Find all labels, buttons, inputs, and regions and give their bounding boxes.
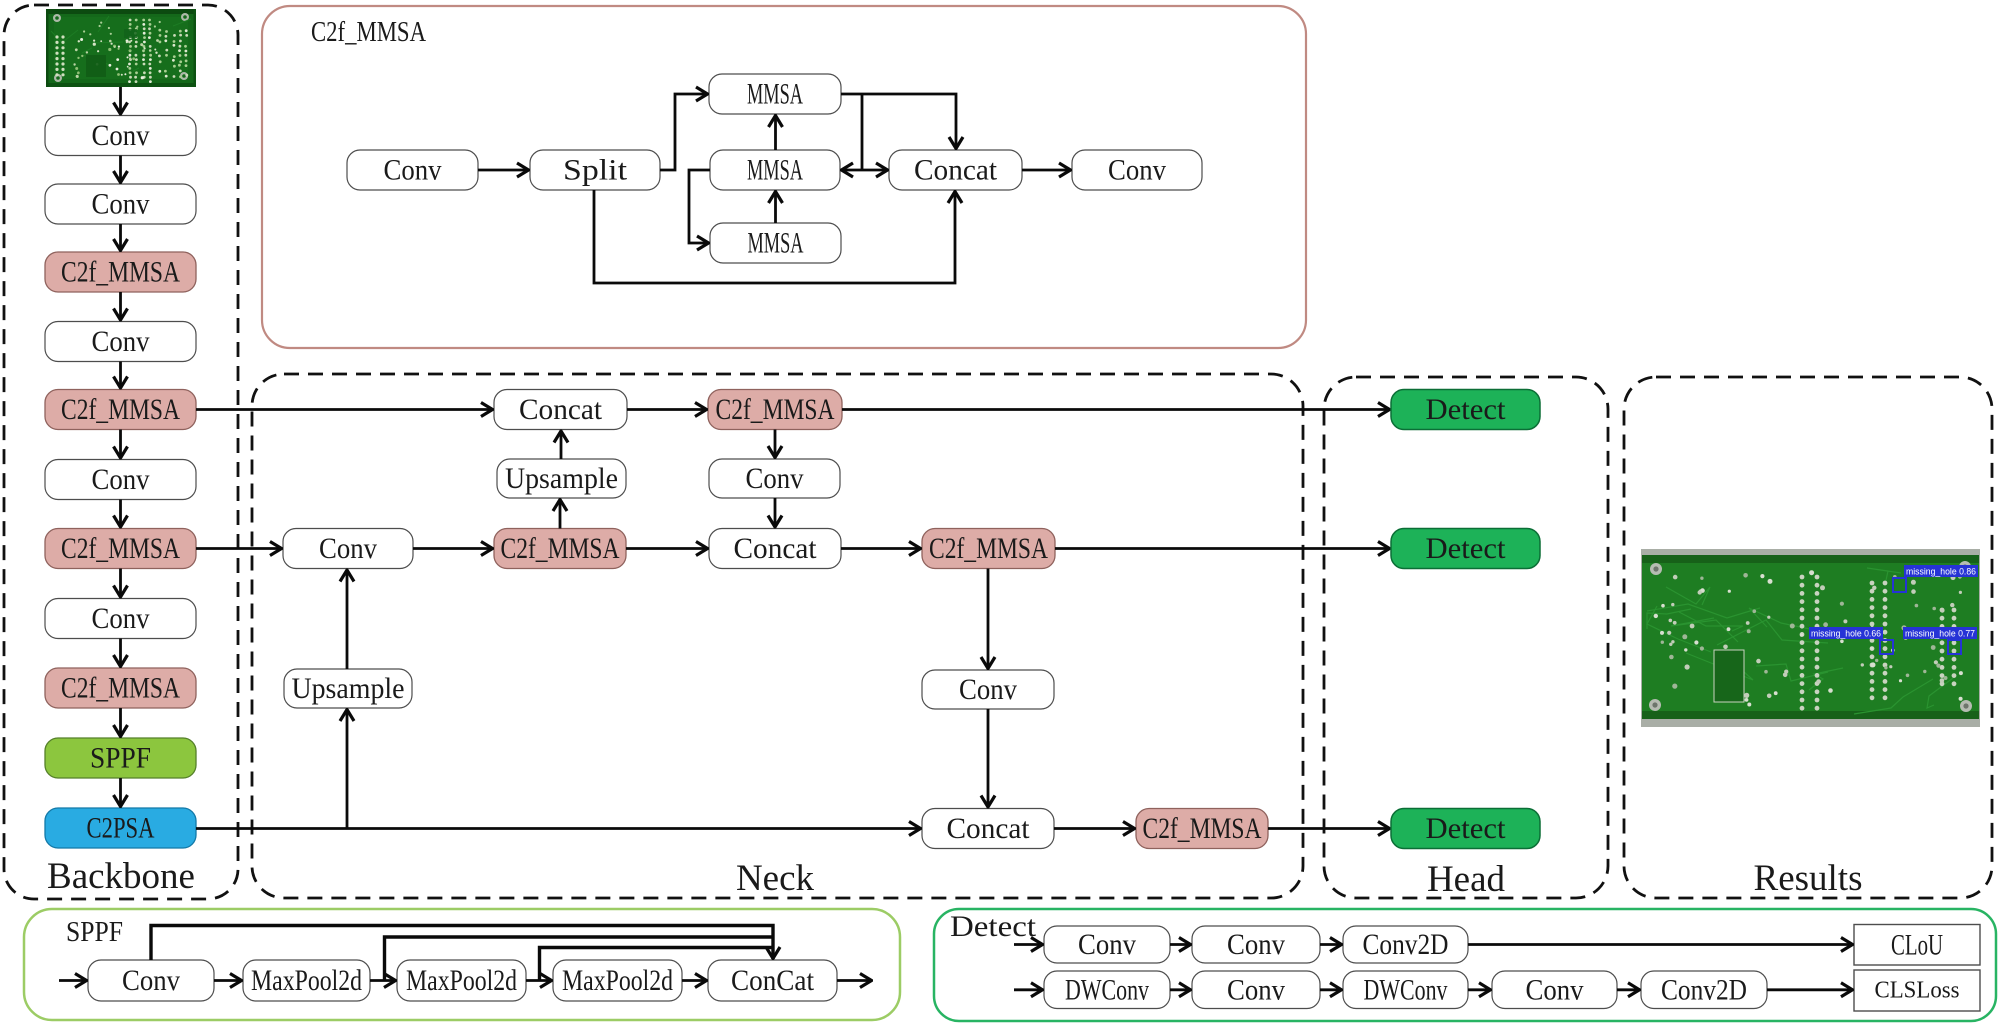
svg-text:MaxPool2d: MaxPool2d (406, 964, 517, 997)
svg-text:Detect: Detect (1426, 812, 1507, 845)
svg-text:Conv: Conv (746, 462, 804, 495)
svg-text:MMSA: MMSA (748, 227, 804, 260)
svg-text:missing_hole 0.86: missing_hole 0.86 (1906, 567, 1976, 578)
svg-text:Upsample: Upsample (505, 462, 618, 495)
svg-text:Neck: Neck (736, 858, 815, 899)
svg-text:Conv: Conv (1078, 928, 1136, 961)
svg-text:Detect: Detect (1426, 393, 1507, 426)
svg-text:Conv: Conv (122, 964, 180, 997)
svg-text:C2f_MMSA: C2f_MMSA (501, 532, 620, 565)
svg-text:Backbone: Backbone (47, 856, 195, 897)
svg-text:Concat: Concat (519, 393, 603, 426)
svg-text:Detect: Detect (950, 910, 1037, 943)
svg-text:Conv: Conv (92, 463, 150, 496)
svg-text:C2f_MMSA: C2f_MMSA (61, 672, 180, 705)
svg-text:Upsample: Upsample (292, 672, 405, 705)
svg-text:C2f_MMSA: C2f_MMSA (1143, 812, 1262, 845)
svg-text:ConCat: ConCat (731, 964, 815, 997)
svg-text:MMSA: MMSA (747, 78, 803, 111)
svg-text:Split: Split (563, 154, 628, 187)
svg-text:Conv2D: Conv2D (1661, 973, 1747, 1006)
svg-text:C2f_MMSA: C2f_MMSA (311, 16, 426, 48)
svg-text:Conv: Conv (92, 119, 150, 152)
svg-text:Concat: Concat (947, 812, 1031, 845)
svg-text:C2f_MMSA: C2f_MMSA (61, 393, 180, 426)
svg-text:missing_hole 0.77: missing_hole 0.77 (1905, 629, 1975, 640)
svg-text:C2f_MMSA: C2f_MMSA (716, 393, 835, 426)
svg-text:Conv: Conv (92, 325, 150, 358)
svg-text:CLoU: CLoU (1891, 928, 1943, 961)
svg-text:C2PSA: C2PSA (87, 812, 155, 845)
svg-text:MMSA: MMSA (747, 154, 803, 187)
svg-text:Conv: Conv (384, 154, 442, 187)
svg-text:Conv: Conv (1108, 154, 1166, 187)
svg-text:C2f_MMSA: C2f_MMSA (61, 532, 180, 565)
svg-text:Head: Head (1427, 859, 1506, 900)
svg-text:missing_hole 0.66: missing_hole 0.66 (1811, 629, 1881, 640)
svg-text:Conv2D: Conv2D (1363, 928, 1449, 961)
svg-text:SPPF: SPPF (90, 742, 151, 775)
svg-text:Concat: Concat (914, 154, 998, 187)
svg-text:DWConv: DWConv (1364, 973, 1448, 1006)
svg-text:Conv: Conv (92, 188, 150, 221)
svg-text:Conv: Conv (319, 532, 377, 565)
svg-text:Results: Results (1754, 858, 1863, 899)
svg-text:Detect: Detect (1426, 532, 1507, 565)
svg-text:C2f_MMSA: C2f_MMSA (929, 532, 1048, 565)
svg-text:DWConv: DWConv (1065, 973, 1149, 1006)
svg-text:MaxPool2d: MaxPool2d (251, 964, 362, 997)
svg-text:Conv: Conv (1526, 973, 1584, 1006)
svg-text:Conv: Conv (1227, 973, 1285, 1006)
svg-text:Conv: Conv (1227, 928, 1285, 961)
svg-text:Concat: Concat (734, 532, 818, 565)
svg-text:Conv: Conv (92, 602, 150, 635)
svg-text:SPPF: SPPF (66, 916, 123, 948)
svg-text:MaxPool2d: MaxPool2d (562, 964, 673, 997)
svg-text:C2f_MMSA: C2f_MMSA (61, 256, 180, 289)
svg-text:CLSLoss: CLSLoss (1875, 978, 1960, 1004)
svg-text:Conv: Conv (959, 673, 1017, 706)
